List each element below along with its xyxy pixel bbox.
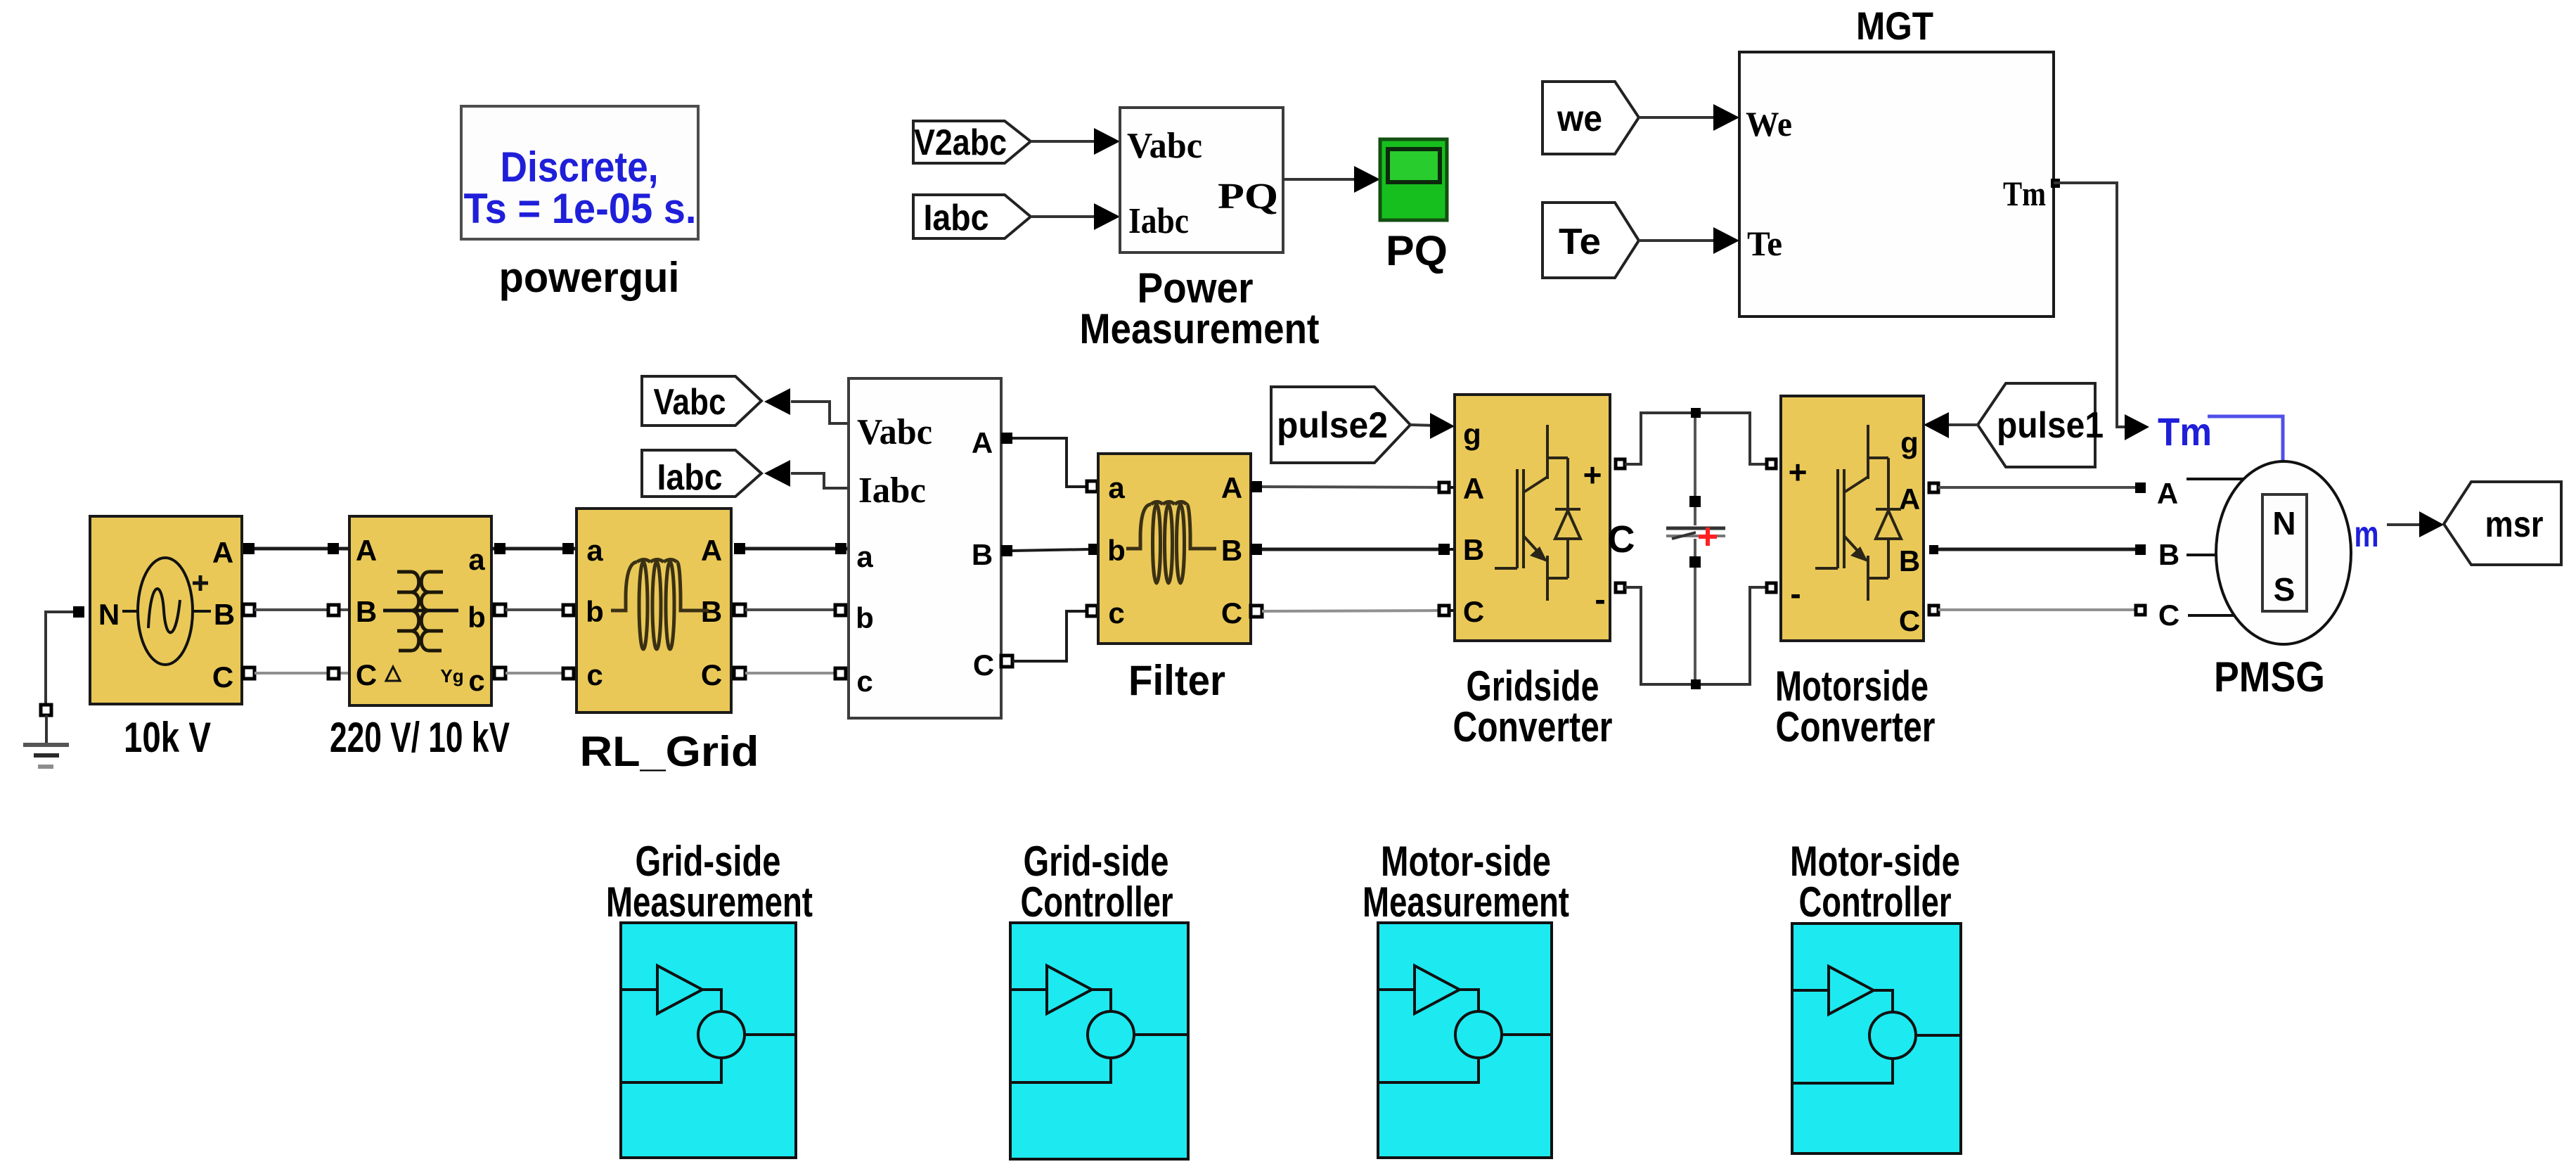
svg-text:C: C [356, 658, 377, 691]
svg-text:C: C [1608, 518, 1635, 561]
svg-text:Vabc: Vabc [654, 382, 726, 423]
wire pulse2 to gridside g [1410, 413, 1455, 439]
IGBT emitter with arrow [1524, 536, 1546, 561]
Filter block [1098, 454, 1251, 644]
svg-text:a: a [468, 543, 485, 576]
svg-text:Iabc: Iabc [858, 471, 926, 511]
svg-text:B: B [1463, 533, 1484, 566]
inductor icon [1126, 502, 1216, 584]
svg-text:a: a [1108, 471, 1125, 504]
Motorside Converter label [1775, 663, 1936, 750]
from tag pulse2 [1271, 387, 1410, 463]
svg-text:msr: msr [2485, 504, 2544, 545]
svg-text:A: A [1899, 482, 1920, 516]
svg-text:C: C [1899, 604, 1920, 637]
MGT block [1739, 52, 2054, 317]
wire measurement Vabc out to goto Vabc [764, 388, 849, 423]
svg-text:A: A [701, 534, 722, 567]
wire RL_Grid A to measurement a [734, 543, 849, 554]
goto tag Iabc [642, 450, 761, 498]
wire transformer a to RL_Grid a [494, 543, 577, 554]
svg-text:10k V: 10k V [124, 714, 211, 761]
svg-text:RL_Grid: RL_Grid [580, 728, 759, 775]
scope PQ [1380, 139, 1447, 220]
Grid-side Measurement label [606, 838, 813, 926]
wire Te to MGT [1639, 227, 1739, 254]
svg-text:A: A [356, 534, 377, 567]
wire m to msr [2387, 511, 2444, 537]
Power Measurement label [1080, 264, 1320, 352]
svg-text:PQ: PQ [1218, 177, 1278, 217]
Motor-side Controller label [1790, 838, 1960, 926]
primary winding [397, 572, 419, 651]
svg-text:a: a [586, 534, 603, 567]
IGBT gate bars [1836, 469, 1839, 568]
svg-text:Te: Te [1559, 222, 1601, 262]
svg-text:Grid-side: Grid-side [636, 838, 781, 885]
svg-text:powergui: powergui [499, 254, 680, 301]
svg-text:B: B [972, 538, 993, 571]
svg-text:C: C [1221, 596, 1242, 629]
wire transformer b to RL_Grid b [494, 604, 577, 615]
AC source ellipse [138, 558, 193, 665]
svg-text:B: B [356, 595, 377, 628]
svg-text:Iabc: Iabc [924, 198, 989, 238]
svg-text:S: S [2274, 571, 2295, 608]
blue wire Tm to PMSG [2208, 416, 2283, 463]
svg-text:A: A [1221, 471, 1242, 504]
svg-text:-: - [1595, 581, 1605, 618]
sine wave [148, 589, 180, 632]
svg-text:c: c [468, 664, 484, 697]
svg-text:Filter: Filter [1128, 657, 1225, 704]
Grid-side Measurement subsystem block [621, 923, 796, 1158]
svg-text:Power: Power [1138, 264, 1254, 312]
transformer 220V/10kV block [349, 516, 491, 705]
svg-text:Yg: Yg [440, 665, 463, 686]
wire pulse1 to motorside g [1924, 412, 1978, 438]
inductor icon [611, 560, 709, 650]
svg-text:pulse1: pulse1 [1997, 405, 2104, 446]
from tag we [1543, 82, 1639, 154]
svg-text:A: A [1463, 472, 1484, 505]
wire source C to transformer C [243, 667, 494, 679]
wire measurement B to filter b [1001, 544, 1100, 556]
svg-text:Vabc: Vabc [857, 412, 932, 452]
PMSG machine body [2216, 461, 2351, 644]
antiparallel diode [1566, 458, 1569, 509]
from tag Te [1543, 203, 1639, 278]
svg-text:+: + [1789, 454, 1808, 490]
wire RL_Grid C to measurement c [734, 667, 849, 679]
Motor-side Measurement label [1363, 838, 1569, 926]
svg-text:Te: Te [1747, 224, 1782, 263]
svg-text:Controller: Controller [1021, 878, 1173, 926]
svg-text:Converter: Converter [1776, 703, 1936, 750]
svg-text:Tm: Tm [2158, 409, 2212, 454]
Motor-side Measurement subsystem block [1378, 923, 1552, 1158]
svg-text:g: g [1463, 418, 1481, 451]
svg-text:C: C [2158, 599, 2179, 632]
svg-text:C: C [973, 648, 994, 682]
Grid-side Controller subsystem block [1010, 923, 1188, 1159]
svg-text:PMSG: PMSG [2214, 653, 2325, 701]
svg-text:Converter: Converter [1453, 703, 1613, 750]
Gridside Converter block [1455, 395, 1610, 641]
wire measurement Iabc out to goto Iabc [764, 460, 849, 488]
wire RL_Grid B to measurement b [734, 604, 849, 615]
from tag Iabc (top) [913, 195, 1031, 238]
svg-text:b: b [856, 601, 874, 634]
Gridside Converter label [1453, 663, 1613, 750]
svg-text:m: m [2355, 514, 2379, 555]
secondary winding [421, 572, 443, 651]
wire source B to transformer B [243, 604, 494, 615]
svg-text:C: C [212, 660, 233, 694]
IGBT collector [1546, 425, 1549, 458]
svg-text:b: b [468, 601, 486, 634]
RL_Grid block [577, 509, 731, 712]
wire motorside C to PMSG C [1929, 599, 2235, 632]
wire source A to transformer A [243, 543, 494, 554]
svg-text:C: C [701, 658, 722, 691]
svg-text:a: a [856, 540, 873, 573]
wire measurement C to filter c [1001, 606, 1097, 667]
svg-text:pulse2: pulse2 [1277, 405, 1388, 446]
svg-text:Motorside: Motorside [1775, 663, 1928, 710]
goto tag msr [2444, 482, 2561, 565]
delta symbol [386, 667, 400, 681]
powergui block [461, 106, 698, 239]
antiparallel diode [1887, 458, 1890, 509]
svg-text:B: B [1221, 534, 1242, 567]
svg-text:B: B [214, 598, 235, 631]
Power Measurement block [1120, 108, 1283, 253]
svg-text:Vabc: Vabc [1127, 126, 1202, 166]
10k V source block [90, 516, 242, 704]
svg-text:C: C [1463, 595, 1484, 628]
wire filter A to gridside A [1251, 481, 1455, 492]
svg-text:we: we [1557, 98, 1602, 139]
wire motorside A to PMSG A [1929, 477, 2243, 510]
svg-text:Gridside: Gridside [1467, 663, 1599, 710]
three-phase V-I measurement block [849, 378, 1001, 718]
wire measurement A to filter a [1001, 433, 1097, 492]
DC link top rail [1616, 408, 1776, 468]
svg-text:220 V/ 10 kV: 220 V/ 10 kV [330, 714, 510, 761]
from tag V2abc [913, 121, 1031, 163]
IGBT gate bars [1516, 469, 1519, 568]
svg-text:-: - [1790, 575, 1801, 612]
svg-text:MGT: MGT [1856, 4, 1933, 48]
svg-text:A: A [212, 536, 233, 569]
svg-text:Ts = 1e-05 s.: Ts = 1e-05 s. [464, 185, 697, 232]
DC link bottom rail [1616, 583, 1776, 689]
svg-text:Iabc: Iabc [657, 457, 723, 498]
svg-text:b: b [586, 595, 604, 628]
IGBT emitter with arrow [1844, 536, 1867, 561]
wire PQ to scope [1283, 166, 1380, 193]
svg-text:V2abc: V2abc [914, 122, 1007, 163]
svg-text:PQ: PQ [1386, 227, 1448, 274]
wire filter C to gridside C [1251, 606, 1455, 617]
from tag pulse1 [1978, 383, 2104, 467]
svg-text:Measurement: Measurement [1363, 878, 1569, 926]
IGBT collector [1867, 425, 1869, 458]
svg-text:Motor-side: Motor-side [1790, 838, 1960, 885]
svg-text:A: A [972, 426, 993, 459]
ground symbol [23, 745, 69, 767]
svg-text:c: c [1108, 596, 1124, 629]
ground wire from N [41, 606, 84, 743]
wire transformer c to RL_Grid c [494, 667, 577, 679]
svg-text:B: B [1899, 544, 1920, 577]
wire MGT Tm to PMSG Tm input [2051, 179, 2149, 440]
wire motorside B to PMSG B [1929, 538, 2217, 571]
svg-text:Measurement: Measurement [606, 878, 813, 926]
DC link capacitor C [1666, 418, 1725, 679]
Motorside Converter block [1781, 396, 1924, 641]
svg-text:Controller: Controller [1799, 878, 1952, 926]
svg-text:Iabc: Iabc [1128, 201, 1189, 241]
svg-text:Discrete,: Discrete, [501, 143, 659, 191]
Motor-side Controller subsystem block [1792, 923, 1961, 1153]
plus sign [193, 575, 208, 591]
svg-text:g: g [1900, 426, 1919, 459]
wire Iabc to Power Measurement [1031, 203, 1120, 230]
wire we to MGT [1639, 104, 1739, 131]
wire filter B to gridside B [1251, 544, 1455, 555]
svg-text:A: A [2157, 477, 2178, 510]
winding leads [383, 609, 458, 613]
svg-text:N: N [2272, 505, 2295, 542]
svg-text:N: N [98, 598, 120, 631]
svg-text:Measurement: Measurement [1080, 305, 1320, 352]
svg-text:B: B [2158, 538, 2179, 571]
svg-text:Motor-side: Motor-side [1381, 838, 1551, 885]
svg-text:b: b [1107, 534, 1126, 567]
wire V2abc to Power Measurement [1031, 128, 1120, 155]
svg-text:Grid-side: Grid-side [1024, 838, 1169, 885]
svg-text:Tm: Tm [2003, 174, 2046, 213]
svg-text:c: c [856, 665, 872, 698]
svg-text:c: c [586, 658, 603, 691]
svg-text:+: + [1583, 456, 1602, 493]
svg-text:We: We [1746, 104, 1792, 143]
Grid-side Controller label [1021, 838, 1173, 926]
goto tag Vabc [642, 376, 761, 426]
